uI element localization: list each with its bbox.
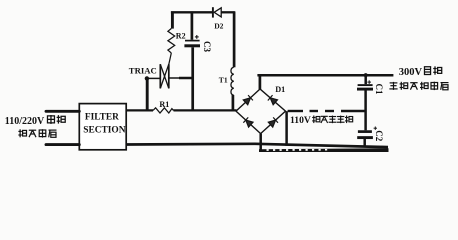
svg-text:R2: R2 — [176, 31, 186, 40]
svg-text:R1: R1 — [159, 100, 169, 109]
svg-text:C3: C3 — [202, 41, 212, 52]
svg-text:T1: T1 — [219, 75, 228, 84]
svg-text:300V: 300V — [399, 67, 423, 78]
svg-text:C1: C1 — [374, 84, 384, 95]
svg-text:C2: C2 — [374, 130, 384, 141]
svg-text:110/220V: 110/220V — [5, 116, 45, 127]
svg-text:TRIAC: TRIAC — [129, 65, 157, 75]
svg-text:SECTION: SECTION — [83, 126, 125, 136]
svg-text:FILTER: FILTER — [85, 113, 119, 123]
svg-text:D2: D2 — [214, 22, 223, 31]
svg-text:D1: D1 — [275, 85, 285, 94]
svg-text:110V: 110V — [290, 115, 311, 126]
